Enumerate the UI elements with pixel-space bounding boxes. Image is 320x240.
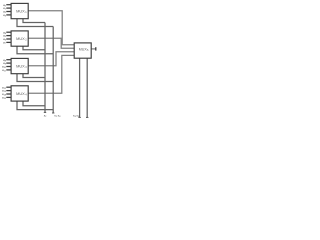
svg-text:MUX: MUX [16,9,25,14]
svg-text:MUX: MUX [16,36,25,41]
svg-text:MUX: MUX [16,64,25,69]
svg-text:MUX: MUX [16,91,25,96]
